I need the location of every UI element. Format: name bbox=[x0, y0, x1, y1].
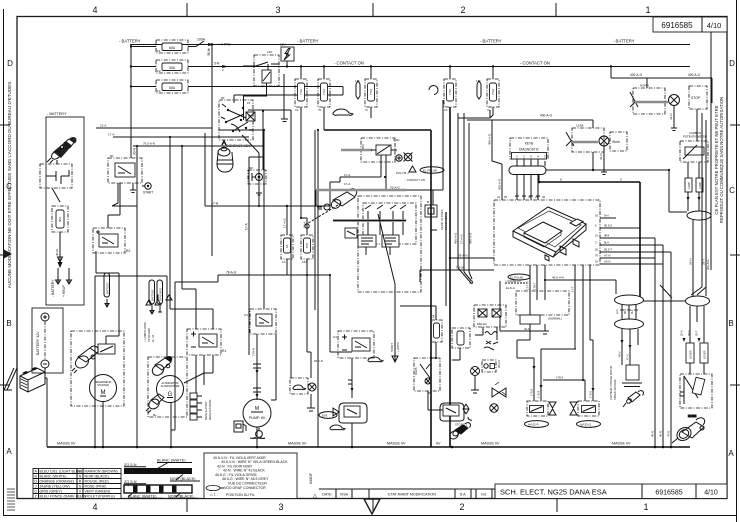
svg-text:VERT (GREEN): VERT (GREEN) bbox=[85, 489, 111, 493]
svg-text:POTENTIOMETER: POTENTIOMETER bbox=[683, 135, 707, 139]
svg-text:Work: Work bbox=[612, 140, 620, 144]
wire oval to down bbox=[693, 220, 706, 296]
svg-text:BATTERY 12V: BATTERY 12V bbox=[36, 331, 40, 355]
svg-text:17-A: 17-A bbox=[344, 173, 350, 177]
pin ticks above ECU bbox=[515, 195, 540, 197]
svg-text:MASSE 0V: MASSE 0V bbox=[57, 442, 76, 446]
svg-text:19: 19 bbox=[248, 114, 252, 118]
svg-text:60A: 60A bbox=[169, 46, 176, 50]
labels right trunks bottom bbox=[651, 431, 671, 437]
ruler letters left bbox=[6, 59, 13, 456]
alternator 3D body top bbox=[150, 356, 172, 377]
terminal block regulator bbox=[190, 393, 202, 420]
svg-text:7b: 7b bbox=[318, 108, 322, 112]
horn 3D bottom right bbox=[672, 414, 705, 443]
svg-text:30: 30 bbox=[221, 96, 225, 100]
wire trunk x431 dark bbox=[324, 130, 431, 447]
wire F8 down bend bbox=[490, 107, 502, 200]
svg-text:D.A.: D.A. bbox=[460, 493, 467, 497]
wire x137 trunk bbox=[136, 146, 138, 447]
group outline starter alternator bbox=[95, 276, 167, 357]
ECU right pin wires fanned bbox=[600, 218, 671, 264]
svg-text:MASSE 0V: MASSE 0V bbox=[288, 442, 307, 446]
svg-text:GRIS (GREY): GRIS (GREY) bbox=[40, 489, 62, 493]
svg-text:30-N: 30-N bbox=[133, 147, 137, 155]
lamp resistor right B bbox=[696, 178, 703, 192]
svg-text:21-A: 21-A bbox=[100, 124, 106, 128]
svg-text:- CONTACT ON: - CONTACT ON bbox=[520, 61, 550, 66]
svg-text:CAPTEUR VITESSE MOTOR: CAPTEUR VITESSE MOTOR bbox=[609, 365, 613, 400]
svg-text:5-R: 5-R bbox=[214, 62, 220, 66]
fuel solenoid box bbox=[425, 200, 437, 217]
wire R2 connections bbox=[95, 183, 120, 447]
wire left horizontal y146 bbox=[133, 145, 263, 147]
svg-text:6916585: 6916585 bbox=[655, 490, 682, 497]
svg-text:q: q bbox=[127, 483, 129, 487]
START indicator bbox=[142, 183, 153, 195]
junction dots masse bus bbox=[94, 446, 673, 449]
svg-text:D+ 61: D+ 61 bbox=[151, 334, 155, 342]
wire capsule3 link bbox=[644, 285, 686, 301]
svg-text:M: M bbox=[255, 406, 259, 412]
wire pot feed bbox=[696, 109, 698, 141]
svg-text:49.5-V-N : WIRE N° VELA GREEN-: 49.5-V-N : WIRE N° VELA GREEN-BLACK bbox=[221, 460, 288, 464]
wire capsule3 down bbox=[690, 306, 704, 343]
label 100A arrow bbox=[197, 38, 231, 52]
svg-text:400-A-G: 400-A-G bbox=[469, 232, 473, 244]
spark arrestor box bbox=[280, 43, 294, 67]
svg-text:26: 26 bbox=[595, 248, 599, 252]
svg-text:B+: B+ bbox=[153, 413, 157, 417]
wire work lamp down ground bbox=[601, 146, 607, 175]
ruler letters right bbox=[728, 59, 735, 458]
fan icon bbox=[250, 428, 265, 439]
wire drop from fuse to relay bbox=[452, 348, 460, 360]
title box top right bbox=[653, 17, 727, 32]
svg-text:START: START bbox=[143, 191, 153, 195]
svg-text:B: B bbox=[728, 319, 733, 328]
wire solenoid to masse bbox=[351, 423, 353, 447]
ruler ticks bottom bbox=[187, 499, 557, 512]
svg-text:400-A-G: 400-A-G bbox=[630, 73, 643, 77]
svg-text:29-N: 29-N bbox=[680, 330, 684, 336]
wire capsules down to sender bbox=[622, 329, 638, 365]
fuse F1 60A top bbox=[156, 40, 188, 53]
svg-text:47-N: 47-N bbox=[626, 354, 630, 360]
svg-text:29-N: 29-N bbox=[689, 258, 693, 265]
svg-text:21: 21 bbox=[535, 195, 539, 199]
svg-text:17-A: 17-A bbox=[245, 222, 249, 230]
labels ECU bottom vertical bbox=[526, 281, 575, 292]
svg-text:HORN: HORN bbox=[688, 414, 696, 418]
connector box 31 bbox=[246, 112, 255, 121]
svg-text:49.5-V-N : FIL VIOLA VERT-NOIR: 49.5-V-N : FIL VIOLA VERT-NOIR bbox=[213, 456, 266, 460]
svg-text:EL PULSE: EL PULSE bbox=[423, 169, 437, 173]
svg-text:DIAGNOSTIC: DIAGNOSTIC bbox=[519, 148, 540, 152]
wire right trunk x671 bbox=[670, 252, 672, 447]
wire trunk x205 bbox=[204, 133, 206, 206]
svg-text:F3: F3 bbox=[157, 89, 161, 93]
fuel level sensor box bbox=[680, 374, 712, 408]
svg-text:+ HELP: + HELP bbox=[62, 284, 66, 297]
pump motor M2 bbox=[243, 399, 271, 427]
fuel level resistor B bbox=[700, 343, 708, 363]
notes box bbox=[204, 453, 297, 499]
svg-text:LEVER: LEVER bbox=[689, 350, 693, 359]
svg-text:SCH. ELECT. NG25 DANA ESA: SCH. ELECT. NG25 DANA ESA bbox=[500, 488, 607, 497]
battery column outline bbox=[46, 112, 84, 305]
svg-text:△: △ bbox=[313, 493, 317, 499]
svg-text:7d: 7d bbox=[444, 108, 448, 112]
wire hourmeter bbox=[307, 352, 315, 411]
pin numbers ECU right bbox=[595, 214, 599, 264]
wire capsule to ECU pins bbox=[517, 175, 538, 201]
wire trunk x249 bbox=[249, 157, 263, 355]
wire trunk x318 bbox=[315, 130, 318, 447]
svg-text:E8A-E3: E8A-E3 bbox=[477, 322, 487, 326]
ruler ticks top bbox=[187, 3, 556, 16]
keyboard diagnostic box bbox=[510, 138, 548, 159]
svg-text:78-A-G: 78-A-G bbox=[226, 271, 237, 275]
svg-text:LAMP: LAMP bbox=[687, 182, 691, 189]
svg-text:400-A-G: 400-A-G bbox=[454, 232, 458, 244]
svg-text:46.5-G : WIRE N° 46.5 GREY: 46.5-G : WIRE N° 46.5 GREY bbox=[222, 477, 269, 481]
curve symbol at F9 bbox=[429, 86, 438, 95]
connector capsule mid1 bbox=[615, 295, 644, 305]
svg-text:400-A-G: 400-A-G bbox=[706, 259, 710, 270]
svg-text:17-A-G: 17-A-G bbox=[283, 218, 287, 228]
svg-text:ROSE (PINK): ROSE (PINK) bbox=[85, 484, 107, 488]
alternator 3D body bottom left bbox=[146, 394, 164, 413]
svg-text:B: B bbox=[6, 319, 11, 328]
label capsule BATTERY x156 bbox=[149, 280, 172, 314]
svg-text:A: A bbox=[728, 449, 734, 458]
svg-text:7.5A: 7.5A bbox=[299, 89, 303, 95]
svg-text:D: D bbox=[729, 59, 735, 68]
svg-text:5A: 5A bbox=[432, 314, 436, 318]
svg-text:AV-33-Q: AV-33-Q bbox=[580, 423, 592, 427]
svg-text:STARTER: STARTER bbox=[97, 383, 109, 387]
svg-text:40-M: 40-M bbox=[55, 249, 59, 256]
car icon bottom left of solenoid bbox=[330, 425, 345, 430]
svg-text:BLEU CIEL (LIGHT BLUE): BLEU CIEL (LIGHT BLUE) bbox=[40, 469, 83, 473]
svg-text:+ A PTO: + A PTO bbox=[218, 43, 231, 47]
svg-text:STOP: STOP bbox=[691, 96, 701, 100]
svg-text:AV-22-P: AV-22-P bbox=[528, 423, 539, 427]
frame outer bottom line bbox=[3, 515, 737, 517]
STOP lamp group bbox=[630, 84, 707, 115]
arrow -BATTERY vertical label bbox=[51, 268, 72, 297]
svg-text:AUCUNE MODIFICATION NE DOIT ET: AUCUNE MODIFICATION NE DOIT ETRE EFFECTU… bbox=[7, 82, 12, 289]
wire left horizontal y128 bbox=[96, 127, 212, 129]
svg-text:R2: R2 bbox=[126, 249, 130, 253]
arrow symbol 11b at F6 bbox=[355, 79, 360, 99]
svg-text:17N-6: 17N-6 bbox=[530, 388, 534, 396]
left fold mark bbox=[3, 249, 12, 259]
fuse F4 7.5A vertical bbox=[295, 67, 307, 219]
battery 3D drawing bbox=[20, 367, 45, 392]
svg-text:- BATTERY: - BATTERY bbox=[47, 112, 67, 116]
svg-text:Ind.: Ind. bbox=[481, 493, 487, 497]
svg-text:77A-N: 77A-N bbox=[252, 348, 256, 356]
diagnostic connector capsule bbox=[509, 159, 546, 175]
svg-text:16: 16 bbox=[595, 214, 599, 218]
ECU pin labels top bbox=[497, 195, 546, 199]
wire fuse F2 output to contact bus bbox=[188, 66, 283, 68]
fuse F2 30A bbox=[156, 60, 188, 73]
junction dots extra bbox=[136, 43, 670, 411]
pin pairs pump wire bbox=[253, 364, 261, 392]
svg-text:100A: 100A bbox=[197, 38, 206, 42]
svg-text:42-N : WIRE N° 42 BLACK: 42-N : WIRE N° 42 BLACK bbox=[223, 469, 266, 473]
svg-text:O: O bbox=[34, 479, 37, 483]
svg-text:4/10: 4/10 bbox=[704, 490, 718, 497]
svg-text:D: D bbox=[7, 59, 13, 68]
svg-text:42-N: 42-N bbox=[669, 113, 673, 120]
alternator circle bbox=[157, 376, 184, 403]
frame outer left line bbox=[3, 9, 5, 516]
svg-text:95.5-T: 95.5-T bbox=[604, 248, 612, 252]
svg-text:76.5-A-N: 76.5-A-N bbox=[143, 142, 155, 146]
label POLYM arrow oval EL PULSE bbox=[396, 166, 444, 175]
fuse in battery column bbox=[52, 206, 68, 232]
wire horizontal 400-A-G top centre bbox=[458, 110, 593, 120]
fuse F5 7.5A vertical bbox=[318, 67, 330, 131]
starter motor M1 bbox=[71, 331, 124, 406]
wire buzzer to ground bbox=[256, 184, 262, 195]
svg-text:4/10: 4/10 bbox=[707, 21, 722, 30]
wire valve feeds bbox=[517, 265, 593, 401]
svg-text:- CONTACT ON: - CONTACT ON bbox=[405, 178, 425, 182]
relay C4b pump bbox=[244, 309, 276, 334]
label capsule HELP x109 bbox=[104, 273, 110, 307]
svg-text:0V: 0V bbox=[436, 442, 441, 446]
svg-text:EV5: EV5 bbox=[322, 414, 328, 418]
wire alternator to masse bbox=[170, 403, 172, 448]
engine block box bbox=[317, 189, 421, 292]
svg-text:REGOLATORE: REGOLATORE bbox=[208, 399, 212, 420]
solenoid box bbox=[98, 344, 115, 354]
wire interlock feeds bbox=[112, 87, 137, 207]
connector capsule right3 bbox=[686, 296, 710, 306]
svg-text:17N-8: 17N-8 bbox=[537, 390, 541, 398]
pin arrows sender wires bbox=[621, 340, 632, 349]
svg-text:VDO GRAF CONNECTOR: VDO GRAF CONNECTOR bbox=[224, 486, 266, 490]
svg-text:36-N: 36-N bbox=[207, 48, 211, 56]
wire levers to sensor bbox=[690, 363, 704, 374]
wire pump relay feeds bbox=[257, 130, 276, 400]
svg-text:LEVER: LEVER bbox=[703, 350, 707, 359]
svg-text:95.5-Z: 95.5-Z bbox=[604, 224, 612, 228]
svg-text:7.5A: 7.5A bbox=[322, 89, 326, 95]
svg-text:17-T: 17-T bbox=[571, 286, 575, 292]
svg-text:41: 41 bbox=[497, 195, 501, 199]
svg-text:REPRODUIT OU COMMUNIQUE SANS N: REPRODUIT OU COMMUNIQUE SANS NOTRE AUTOR… bbox=[719, 97, 724, 223]
arrow START ASTO vertical mid bbox=[390, 336, 400, 362]
wire fuse feeders left bbox=[131, 45, 156, 87]
svg-text:KEYB: KEYB bbox=[525, 142, 534, 146]
svg-text:50A: 50A bbox=[58, 217, 62, 222]
labels trunk centre vertical bbox=[454, 232, 473, 244]
wire dark horizontal 182 bbox=[539, 182, 640, 297]
svg-text:BLANC (WHITE): BLANC (WHITE) bbox=[157, 459, 186, 463]
svg-text:- BATTERY: - BATTERY bbox=[480, 39, 502, 44]
arrow symbol 11b at F8 bbox=[476, 79, 481, 99]
svg-text:17-A: 17-A bbox=[344, 182, 350, 186]
wire fuse mid feeds bbox=[287, 206, 307, 275]
svg-text:A7-N: A7-N bbox=[604, 254, 610, 258]
wire sample solid bbox=[124, 459, 200, 482]
pressure switch 3D bbox=[448, 423, 470, 441]
svg-text:TH-0N: TH-0N bbox=[456, 266, 465, 270]
svg-text:B: B bbox=[427, 200, 429, 204]
fuse FA 1A mid bbox=[281, 235, 293, 264]
starter 3D body bbox=[72, 346, 98, 373]
wire R1 to regulator bbox=[196, 355, 213, 393]
svg-text:BZ: BZ bbox=[249, 166, 253, 170]
svg-text:NOIR (BLACK): NOIR (BLACK) bbox=[85, 474, 109, 478]
svg-text:VIOLET (PURPLE): VIOLET (PURPLE) bbox=[85, 494, 116, 498]
svg-text:A-N: A-N bbox=[615, 309, 619, 314]
svg-text:EL PULSE: EL PULSE bbox=[510, 276, 523, 280]
wire right verticals top x702 x706 bbox=[691, 113, 706, 295]
svg-text:47-N: 47-N bbox=[667, 431, 671, 437]
svg-text:5N: 5N bbox=[428, 391, 432, 395]
svg-text:9L4: 9L4 bbox=[630, 309, 634, 314]
title block bottom right bbox=[495, 484, 727, 499]
svg-text:C4: C4 bbox=[244, 313, 248, 317]
svg-text:28-G: 28-G bbox=[687, 330, 691, 336]
ruler numbers top bbox=[92, 5, 650, 15]
svg-text:BLANC (WHITE): BLANC (WHITE) bbox=[40, 474, 67, 478]
relay K1 12P bbox=[243, 50, 288, 122]
wire trunk x450 dark bbox=[449, 107, 451, 447]
svg-text:W0C: W0C bbox=[393, 138, 401, 142]
svg-text:3: 3 bbox=[275, 5, 280, 15]
valve bowtie right bbox=[492, 382, 506, 397]
relay start interlock bbox=[108, 154, 142, 183]
svg-text:- BATTERY: - BATTERY bbox=[51, 279, 55, 297]
svg-text:12P: 12P bbox=[267, 50, 272, 54]
svg-text:15A: 15A bbox=[305, 243, 309, 248]
svg-text:ROUGE (RED): ROUGE (RED) bbox=[85, 479, 109, 483]
svg-text:A: A bbox=[6, 447, 12, 456]
wire pump to masse bbox=[256, 427, 258, 447]
wire key row 17-A bbox=[205, 205, 320, 207]
svg-text:11b: 11b bbox=[476, 79, 481, 83]
svg-text:M: M bbox=[79, 469, 82, 473]
svg-text:VISA: VISA bbox=[340, 493, 349, 497]
starter 3D in engine bbox=[317, 189, 357, 210]
svg-text:50A: 50A bbox=[169, 86, 176, 90]
svg-text:17-A: 17-A bbox=[108, 133, 114, 137]
svg-text:15: 15 bbox=[247, 101, 251, 105]
svg-text:MODIF: MODIF bbox=[309, 473, 313, 484]
oval EL PULSE under ECU bbox=[505, 274, 530, 290]
svg-text:SPEED SENSOR: SPEED SENSOR bbox=[613, 379, 617, 400]
svg-text:294-N: 294-N bbox=[497, 360, 501, 368]
svg-text:17: 17 bbox=[249, 128, 253, 132]
small module pair right bbox=[482, 360, 496, 372]
junction dots fuse feeders bbox=[130, 45, 132, 67]
relay C4 centre bbox=[333, 331, 374, 358]
wire bus MASSE 0V bbox=[47, 446, 690, 448]
svg-text:12AB: 12AB bbox=[576, 124, 583, 128]
svg-text:7c: 7c bbox=[365, 108, 369, 112]
ECU U1 dash-dot enclosure bbox=[494, 200, 600, 265]
svg-text:10: 10 bbox=[595, 260, 599, 264]
left lower fold mark bbox=[4, 368, 17, 390]
svg-text:F1: F1 bbox=[157, 49, 161, 53]
svg-text:7.5A: 7.5A bbox=[491, 89, 495, 95]
fuel station icon bbox=[234, 421, 246, 432]
svg-text:45-N: 45-N bbox=[651, 431, 655, 437]
wire stop lamp ground bbox=[671, 106, 677, 131]
glow relay K2 bbox=[341, 138, 401, 190]
svg-text:17N-9: 17N-9 bbox=[556, 376, 564, 380]
svg-text:7a: 7a bbox=[295, 108, 299, 112]
ignition switch S1 CONTACT KEY bbox=[219, 96, 253, 140]
svg-text:84-C-N: 84-C-N bbox=[314, 359, 323, 363]
wire lamps down to oval connector bbox=[688, 192, 699, 211]
solenoid valve Y1 AV-22-P bbox=[525, 401, 557, 427]
wire right trunk x663 bbox=[662, 245, 664, 447]
bundle arrow to ECU bbox=[458, 113, 473, 284]
wire bus -CONTACT ON bbox=[283, 66, 690, 68]
svg-text:50: 50 bbox=[110, 154, 114, 158]
lamp resistor right A bbox=[685, 178, 692, 192]
svg-text:R: R bbox=[79, 479, 82, 483]
wire key line y130 bbox=[219, 129, 264, 131]
svg-text:2: 2 bbox=[460, 5, 465, 15]
labels ECU right pins bbox=[604, 214, 612, 264]
battery 12V box bbox=[32, 308, 63, 373]
switch box E1 bbox=[414, 358, 440, 395]
svg-text:- CONTACT ON: - CONTACT ON bbox=[334, 61, 364, 66]
svg-text:LAMP: LAMP bbox=[698, 182, 702, 189]
fuse FB 15A mid bbox=[301, 235, 313, 264]
svg-text:42-N: 42-N bbox=[599, 153, 603, 160]
motor circle bbox=[90, 375, 117, 402]
svg-text:C4: C4 bbox=[333, 335, 337, 339]
svg-text:DAMS: DAMS bbox=[414, 367, 418, 375]
svg-text:- BATTERY: - BATTERY bbox=[119, 39, 141, 44]
svg-text:PUMP. 60: PUMP. 60 bbox=[249, 416, 265, 420]
svg-text:F2: F2 bbox=[157, 69, 161, 73]
svg-text:400-A-G: 400-A-G bbox=[498, 178, 502, 190]
svg-text:50C: 50C bbox=[361, 144, 365, 149]
wire sample segmented bbox=[124, 480, 198, 499]
speed sender box bbox=[622, 365, 642, 387]
svg-text:12V: 12V bbox=[280, 43, 285, 47]
wire contact-on drop center bbox=[330, 177, 381, 206]
svg-text:49.5-V-N: 49.5-V-N bbox=[552, 276, 564, 280]
svg-text:35: 35 bbox=[504, 195, 508, 199]
svg-text:BATTERY: BATTERY bbox=[150, 289, 154, 301]
labels capsule3 wires bbox=[680, 330, 699, 336]
warning triangles alternator bbox=[146, 295, 161, 306]
svg-text:46-N: 46-N bbox=[659, 431, 663, 437]
svg-text:C: C bbox=[729, 186, 735, 195]
pin arrows capsule3 bbox=[683, 338, 701, 342]
svg-text:MARRON (BROWN): MARRON (BROWN) bbox=[85, 469, 118, 473]
legend colour table bbox=[33, 469, 121, 499]
svg-text:MASSE 0V: MASSE 0V bbox=[612, 442, 631, 446]
svg-text:+ ASTO: + ASTO bbox=[396, 341, 400, 352]
svg-text:DATE: DATE bbox=[322, 493, 332, 497]
wire work feed x593 bbox=[592, 120, 594, 170]
connectors E8A crossed boxes bbox=[474, 305, 506, 327]
